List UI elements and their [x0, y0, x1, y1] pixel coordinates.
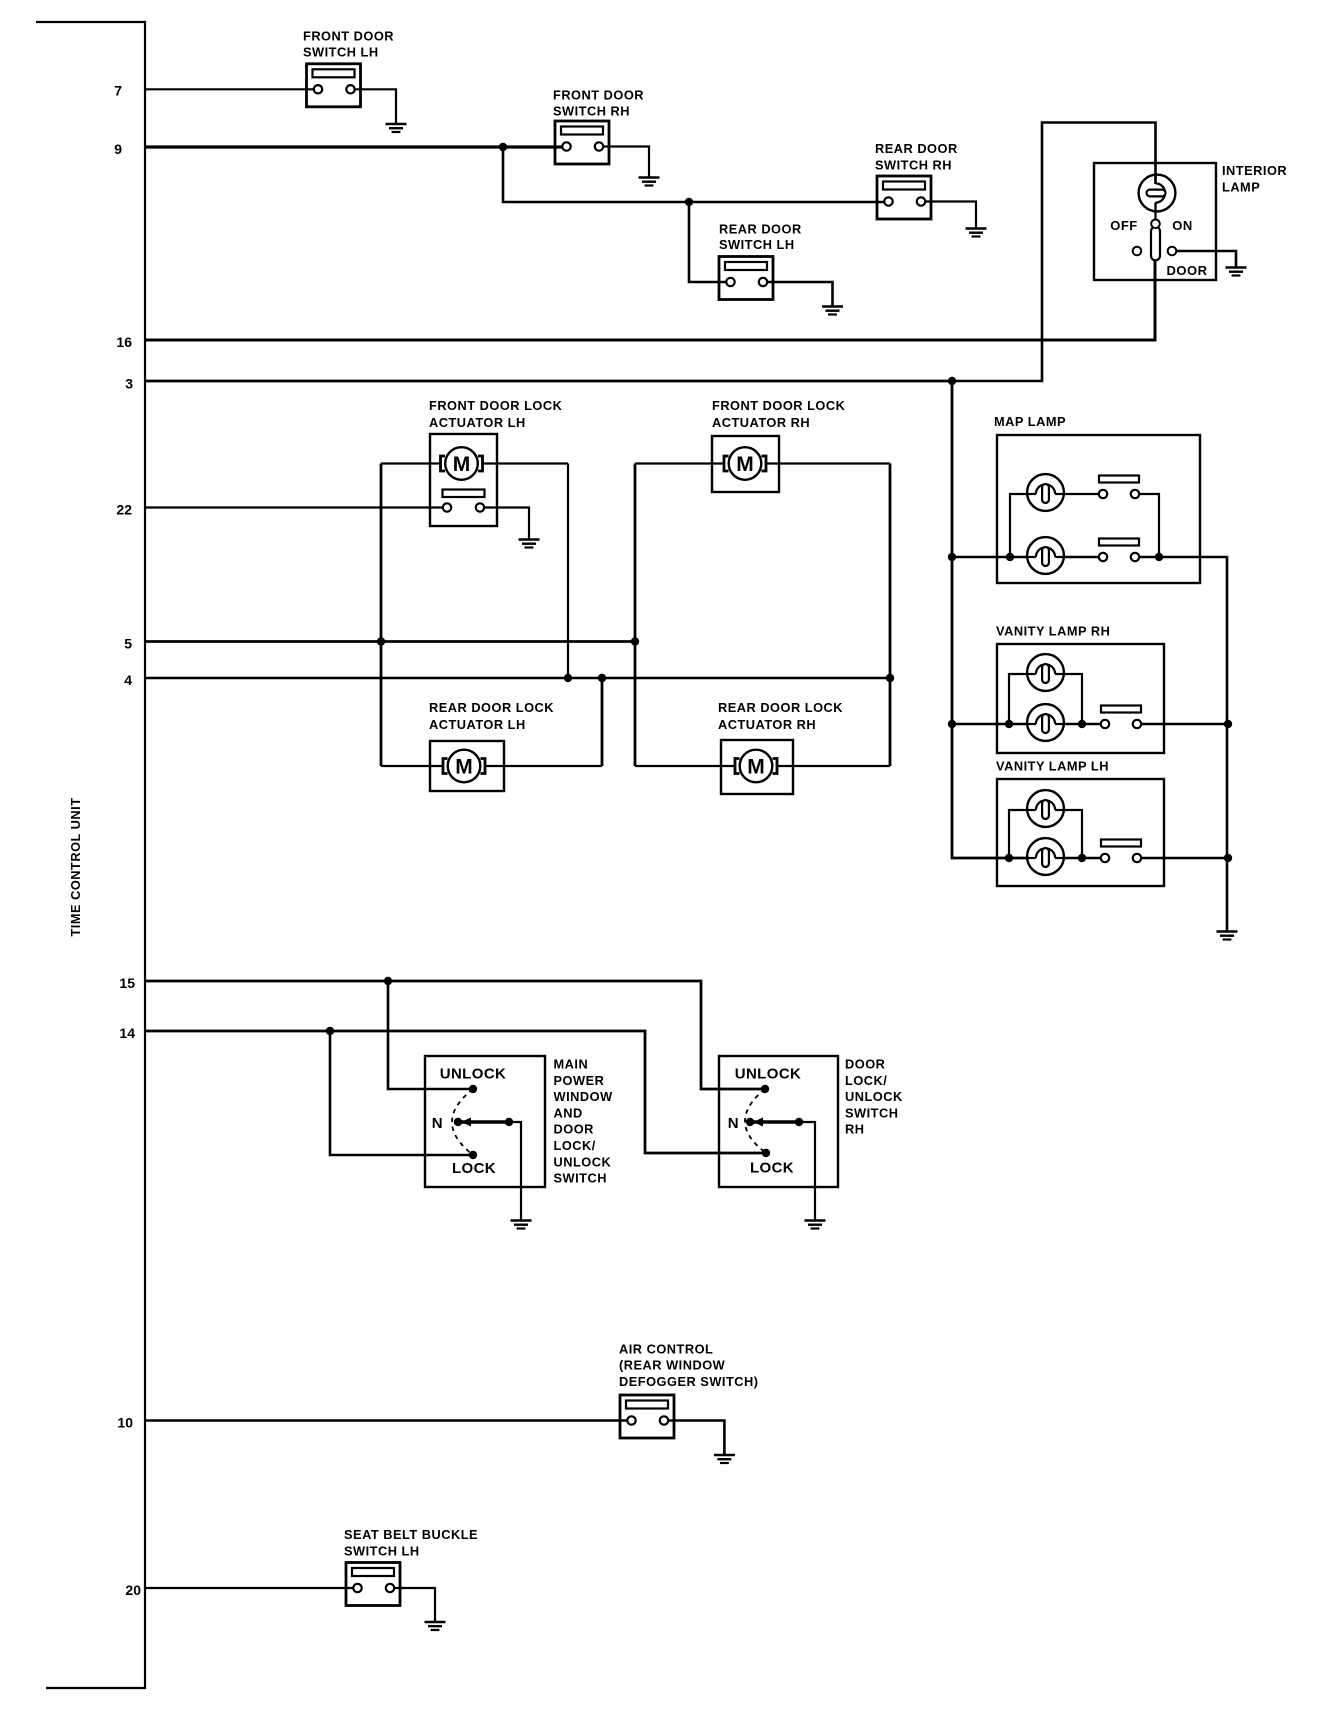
svg-text:POWER: POWER	[554, 1073, 605, 1088]
vanity RH bulb upper	[1027, 654, 1064, 691]
wire map lamp lower row	[952, 556, 1028, 559]
ground (front door switch LH)	[386, 124, 407, 132]
junction main switch N wire	[505, 1118, 513, 1126]
svg-text:(REAR WINDOW: (REAR WINDOW	[619, 1358, 726, 1373]
junction vanity LH right	[1078, 854, 1086, 862]
junction map lamp upper branch	[1006, 553, 1014, 561]
wire vanity RH row	[952, 723, 1028, 726]
ground (interior lamp)	[1226, 268, 1247, 276]
svg-text:DOOR: DOOR	[845, 1056, 885, 1071]
time control unit bus bottom stub	[46, 1687, 146, 1689]
svg-text:ACTUATOR RH: ACTUATOR RH	[712, 415, 810, 430]
svg-text:SWITCH RH: SWITCH RH	[553, 104, 630, 119]
junction pin 9 branch	[499, 143, 507, 151]
wire actuator LH motor leads	[381, 462, 441, 464]
map lamp switch 2	[1099, 539, 1139, 562]
wire front door switch RH to ground	[603, 147, 649, 178]
RH switch unlock contact	[761, 1085, 769, 1093]
wire actuator RH motor leads	[635, 462, 724, 464]
interior lamp OFF contact	[1133, 247, 1142, 256]
ground (rear door switch LH)	[822, 307, 843, 315]
wire rear actuator RH motor leads	[635, 765, 735, 767]
junction pin 5 / actuator RH lead	[631, 637, 639, 645]
junction pin 15 branch	[384, 977, 392, 985]
junction vanity RH right	[1078, 720, 1086, 728]
svg-text:9: 9	[114, 141, 122, 157]
time control unit bus top stub	[36, 21, 146, 23]
ground (main switch)	[511, 1221, 532, 1229]
vanity RH switch	[1101, 706, 1141, 729]
wire pin 22	[145, 506, 443, 508]
svg-text:SWITCH RH: SWITCH RH	[875, 158, 952, 173]
svg-text:REAR DOOR: REAR DOOR	[719, 222, 802, 237]
svg-text:RH: RH	[845, 1122, 864, 1137]
wire front door switch LH to ground	[355, 89, 396, 124]
svg-text:SWITCH LH: SWITCH LH	[344, 1544, 420, 1559]
svg-text:AND: AND	[554, 1105, 583, 1120]
wire to rear door switch LH	[689, 202, 726, 282]
wire pin 7 to front door switch LH	[145, 88, 314, 90]
vanity LH switch	[1101, 840, 1141, 863]
svg-text:ACTUATOR LH: ACTUATOR LH	[429, 415, 526, 430]
svg-text:22: 22	[116, 502, 132, 518]
wire actuator LH motor left lead vertical	[380, 464, 383, 767]
wire pin 5 (thick)	[145, 640, 635, 643]
wire pin 20	[145, 1587, 353, 1589]
svg-text:DOOR: DOOR	[1167, 263, 1208, 278]
wire pin 16 to interior lamp (thick)	[145, 259, 1155, 340]
svg-text:N: N	[432, 1115, 443, 1132]
interior lamp switch lever	[1151, 227, 1160, 260]
rear door lock actuator LH motor	[443, 750, 485, 783]
svg-text:INTERIOR: INTERIOR	[1222, 163, 1287, 178]
wire pin 15 to main switch unlock	[388, 981, 473, 1089]
wire vanity RH output	[1141, 723, 1227, 726]
wire actuator RH right lead vertical	[889, 464, 892, 767]
wire vanity LH bulb to switch	[1064, 857, 1101, 860]
junction map lamp feed	[948, 553, 956, 561]
front door lock actuator LH box	[430, 434, 497, 526]
svg-text:SWITCH LH: SWITCH LH	[719, 237, 795, 252]
wire pin 4 (thick)	[145, 677, 890, 680]
svg-text:FRONT DOOR: FRONT DOOR	[553, 88, 644, 103]
front door lock actuator LH motor	[441, 447, 483, 480]
interior lamp bulb	[1139, 175, 1176, 212]
junction vanity lamp RH feed	[948, 720, 956, 728]
interior lamp ON/DOOR contact	[1168, 247, 1177, 256]
wire air control to ground	[668, 1421, 724, 1456]
svg-text:16: 16	[116, 334, 132, 350]
junction rear door switch LH branch	[685, 198, 693, 206]
wire interior lamp DOOR contact to ground	[1176, 251, 1236, 268]
wire rear actuator LH motor leads	[381, 765, 443, 767]
wire rear door switch RH to ground	[925, 202, 976, 229]
wire map lamp upper branch	[1010, 494, 1028, 557]
wire actuator LH motor right lead vertical	[567, 464, 569, 679]
svg-text:7: 7	[114, 82, 122, 98]
svg-text:TIME CONTROL UNIT: TIME CONTROL UNIT	[68, 797, 83, 936]
main switch lock contact	[469, 1151, 477, 1159]
rear door lock actuator LH box	[430, 741, 504, 791]
wire pin 3 (thick)	[145, 380, 953, 383]
wire vanity RH upper loop left	[1009, 674, 1028, 724]
main power window switch box	[425, 1056, 545, 1187]
main switch N wire (thick)	[461, 1120, 509, 1124]
svg-text:LOCK: LOCK	[452, 1160, 496, 1177]
vanity lamp LH box	[997, 779, 1164, 886]
wire pin 14 to main switch lock	[330, 1031, 473, 1155]
wire vanity RH bulb to switch	[1064, 723, 1101, 726]
map lamp switch 1	[1099, 476, 1139, 499]
junction pin 14 branch	[326, 1027, 334, 1035]
wire rear door switch LH to ground	[767, 282, 832, 307]
svg-text:VANITY LAMP RH: VANITY LAMP RH	[996, 624, 1110, 639]
junction pin 4 / actuator RH right lead	[886, 674, 894, 682]
junction vanity RH output on lamp ground bus	[1224, 720, 1232, 728]
wire map lamp output	[1139, 557, 1227, 932]
ground (air control)	[714, 1455, 735, 1463]
svg-text:VANITY LAMP LH: VANITY LAMP LH	[996, 759, 1109, 774]
ground (rear door switch RH)	[966, 229, 987, 237]
wire vanity LH upper loop right	[1064, 810, 1083, 858]
svg-text:SWITCH LH: SWITCH LH	[303, 45, 379, 60]
wire pin 9 (thick)	[145, 145, 562, 148]
ground (RH switch)	[805, 1221, 826, 1229]
svg-text:5: 5	[124, 636, 132, 652]
main switch N arrow	[461, 1118, 471, 1127]
interior lamp box	[1094, 163, 1216, 280]
ground (front door lock actuator LH)	[519, 540, 540, 548]
front door lock actuator RH motor	[724, 447, 766, 480]
svg-text:14: 14	[119, 1025, 135, 1041]
wire map lamp bulb2 to switch2	[1064, 556, 1099, 559]
wire pin 3 to interior lamp top	[952, 123, 1156, 382]
svg-text:ON: ON	[1172, 218, 1193, 233]
svg-text:AIR CONTROL: AIR CONTROL	[619, 1342, 713, 1357]
svg-text:DOOR: DOOR	[554, 1122, 594, 1137]
junction pin 3 / lamp bus	[948, 377, 956, 385]
svg-text:REAR DOOR LOCK: REAR DOOR LOCK	[429, 700, 554, 715]
svg-text:ACTUATOR RH: ACTUATOR RH	[718, 717, 816, 732]
RH switch lock contact	[762, 1149, 770, 1157]
rear door switch LH	[719, 257, 773, 300]
svg-text:REAR DOOR: REAR DOOR	[875, 141, 958, 156]
wire RH switch to ground	[799, 1122, 815, 1221]
svg-text:UNLOCK: UNLOCK	[735, 1065, 802, 1082]
svg-text:DEFOGGER SWITCH): DEFOGGER SWITCH)	[619, 1374, 759, 1389]
vanity lamp RH box	[997, 644, 1164, 753]
svg-text:4: 4	[124, 672, 132, 688]
wire seat belt switch to ground	[394, 1588, 435, 1622]
main switch dashed wiper arc	[452, 1089, 473, 1155]
front door switch LH	[307, 64, 361, 107]
RH switch N wire (thick)	[753, 1120, 799, 1124]
front door lock actuator LH terminals	[443, 490, 485, 512]
wire interior lamp bulb to switch	[1154, 203, 1156, 220]
junction pin 5 / actuator LH lead	[377, 637, 385, 645]
door lock/unlock switch RH box	[719, 1056, 838, 1187]
ground (front door switch RH)	[639, 178, 660, 186]
vanity RH bulb lower	[1027, 704, 1064, 741]
svg-text:UNLOCK: UNLOCK	[554, 1154, 612, 1169]
time control unit bus (vertical)	[144, 21, 146, 1689]
svg-text:WINDOW: WINDOW	[554, 1089, 614, 1104]
junction vanity RH left	[1005, 720, 1013, 728]
svg-text:REAR DOOR LOCK: REAR DOOR LOCK	[718, 700, 843, 715]
svg-text:SWITCH: SWITCH	[554, 1171, 607, 1186]
junction pin 4 / rear actuator LH lead	[598, 674, 606, 682]
RH switch dashed wiper arc	[745, 1089, 766, 1153]
svg-text:FRONT DOOR LOCK: FRONT DOOR LOCK	[429, 398, 563, 413]
junction vanity LH left	[1005, 854, 1013, 862]
junction RH switch N wire	[795, 1118, 803, 1126]
RH switch N contact	[746, 1118, 754, 1126]
wire rear actuator LH right lead vertical	[601, 678, 604, 766]
main switch unlock contact	[469, 1085, 477, 1093]
svg-text:3: 3	[125, 376, 133, 392]
wire junction to rear door switches	[503, 147, 884, 202]
front door lock actuator RH box	[712, 436, 779, 492]
svg-text:LOCK: LOCK	[750, 1160, 794, 1177]
main switch N contact	[454, 1118, 462, 1126]
map lamp box	[997, 435, 1200, 583]
svg-text:15: 15	[119, 975, 135, 991]
wire lamp bus vertical	[952, 381, 1028, 858]
map lamp bulb 2	[1027, 537, 1064, 574]
wire map lamp switch1 drop	[1139, 494, 1159, 557]
svg-text:FRONT DOOR: FRONT DOOR	[303, 29, 394, 44]
svg-text:OFF: OFF	[1110, 218, 1138, 233]
map lamp bulb 1	[1027, 474, 1064, 511]
svg-text:LAMP: LAMP	[1222, 180, 1260, 195]
front door switch RH	[555, 121, 609, 164]
interior lamp switch common contact	[1151, 220, 1160, 229]
svg-text:LOCK/: LOCK/	[845, 1073, 887, 1088]
svg-text:10: 10	[117, 1415, 133, 1431]
rear door lock actuator RH box	[721, 740, 793, 794]
svg-text:SWITCH: SWITCH	[845, 1105, 898, 1120]
svg-text:MAP LAMP: MAP LAMP	[994, 414, 1066, 429]
wire pin 14 (thick)	[145, 1031, 766, 1153]
rear door switch RH	[877, 176, 931, 219]
svg-text:FRONT DOOR LOCK: FRONT DOOR LOCK	[712, 398, 846, 413]
wire pin 10	[145, 1419, 627, 1422]
wire actuator LH to ground	[484, 508, 529, 540]
ground (lamp bus)	[1217, 932, 1238, 940]
seat belt buckle switch LH	[346, 1563, 400, 1606]
wire map lamp bulb1 to switch1	[1064, 493, 1099, 495]
vanity LH bulb upper	[1027, 790, 1064, 827]
svg-text:LOCK/: LOCK/	[554, 1138, 596, 1153]
svg-text:ACTUATOR LH: ACTUATOR LH	[429, 717, 526, 732]
ground (seat belt buckle switch)	[425, 1622, 446, 1630]
wire vanity LH upper loop left	[1009, 810, 1028, 858]
svg-text:UNLOCK: UNLOCK	[440, 1065, 507, 1082]
junction vanity LH output on lamp ground bus	[1224, 854, 1232, 862]
wire main switch to ground	[509, 1122, 521, 1221]
rear door lock actuator RH motor	[735, 750, 777, 783]
junction pin 4 / actuator LH right lead	[564, 674, 572, 682]
vanity LH bulb lower	[1027, 838, 1064, 875]
svg-text:20: 20	[125, 1582, 141, 1598]
wire vanity LH output	[1141, 857, 1228, 860]
wire pin 15 (thick)	[145, 981, 765, 1089]
svg-text:SEAT BELT BUCKLE: SEAT BELT BUCKLE	[344, 1527, 478, 1542]
svg-text:N: N	[728, 1115, 739, 1132]
svg-text:UNLOCK: UNLOCK	[845, 1089, 903, 1104]
junction map lamp output	[1155, 553, 1163, 561]
wire actuator RH left lead vertical	[634, 464, 637, 767]
svg-text:MAIN: MAIN	[554, 1056, 589, 1071]
wire vanity RH upper loop right	[1064, 674, 1083, 724]
RH switch N arrow	[753, 1118, 763, 1127]
air control switch	[620, 1395, 674, 1438]
